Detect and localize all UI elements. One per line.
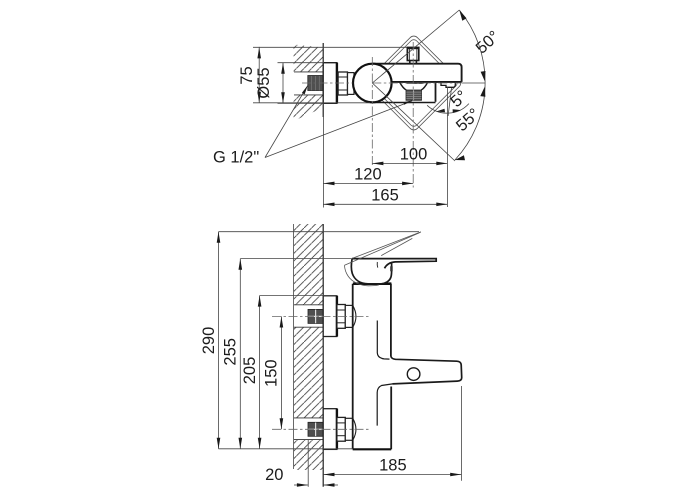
leader to wall thread xyxy=(265,85,308,158)
dimension 185 xyxy=(323,386,461,481)
spout hole xyxy=(407,368,420,381)
lever tip tab (top view) xyxy=(441,82,455,87)
wall left edge (side view) xyxy=(293,224,295,469)
dimension 75 xyxy=(253,47,407,103)
hex adapter (top view) xyxy=(338,72,347,95)
svg-text:290: 290 xyxy=(200,327,218,355)
dimension 120 xyxy=(323,182,413,184)
svg-text:120: 120 xyxy=(354,166,382,184)
escutcheon flange (top view) xyxy=(323,63,337,104)
dimension 100 xyxy=(372,162,447,164)
handle dome circle (top view) xyxy=(353,64,392,103)
svg-text:75: 75 xyxy=(238,66,256,84)
lower eccentric threaded block xyxy=(308,422,323,436)
svg-text:255: 255 xyxy=(221,338,239,366)
rotation envelope outer diamond (top view) xyxy=(365,34,463,132)
5 degree arrows xyxy=(436,109,461,113)
floor extension line xyxy=(219,448,354,450)
dimension 290 xyxy=(219,232,420,449)
svg-text:205: 205 xyxy=(241,357,259,385)
body top joint thick line xyxy=(353,282,392,285)
dimension diameter 55 xyxy=(278,63,325,104)
neck cylinder (top view) xyxy=(348,73,355,95)
dimension 165 xyxy=(323,203,447,205)
body bottom / spout top edge (top view) xyxy=(391,81,462,83)
wall hatch (top view) xyxy=(294,45,324,122)
svg-text:50°: 50° xyxy=(473,27,504,57)
5 degree vertical reference line xyxy=(446,87,448,207)
upper connector cap xyxy=(345,305,356,327)
50 degree ray xyxy=(372,10,459,83)
extension: wall surface down xyxy=(322,112,324,208)
arc arrowheads xyxy=(455,10,486,160)
lower centerline xyxy=(272,428,369,430)
rotated lever thin outline xyxy=(345,232,421,286)
svg-text:165: 165 xyxy=(371,186,399,204)
upper eccentric threaded block xyxy=(308,309,323,323)
funnel opening (top view) xyxy=(400,83,428,90)
svg-text:185: 185 xyxy=(379,456,407,474)
55 degree ray xyxy=(372,83,455,161)
lower connector cap xyxy=(345,418,356,440)
svg-text:100: 100 xyxy=(400,146,428,164)
5 degree tilted line xyxy=(448,88,451,116)
svg-text:150: 150 xyxy=(262,359,280,387)
dimension 255 xyxy=(240,259,352,449)
handle lever blade (side view) xyxy=(352,259,436,269)
big angle arc xyxy=(455,10,485,160)
dimension 150 xyxy=(280,316,282,429)
lower hex nut xyxy=(337,417,345,441)
spout block (top view) xyxy=(370,82,436,103)
diverter knob (top view) xyxy=(407,47,419,63)
handle cap (side view) xyxy=(351,259,391,284)
rotation envelope inner diamond (top view) xyxy=(369,38,459,128)
centerline vertical through handle (top view) xyxy=(371,57,373,167)
wall recess lines (side view) xyxy=(294,305,323,440)
wall surface line (top view) xyxy=(322,43,324,117)
svg-text:Ø55: Ø55 xyxy=(255,67,273,98)
aerator thread (top view) xyxy=(406,90,422,100)
centerline horizontal (top view) xyxy=(302,82,353,84)
upper flange escutcheon xyxy=(323,296,337,337)
svg-text:20: 20 xyxy=(265,466,283,484)
centerline vertical through diverter (top view) xyxy=(412,42,414,188)
indicator nub on handle xyxy=(390,266,393,271)
handle crease xyxy=(376,262,379,268)
wall hatch (side view) xyxy=(294,224,324,470)
leader to aerator thread xyxy=(265,100,413,157)
upper hex nut xyxy=(337,305,345,329)
horizontal ray to arc xyxy=(462,82,486,84)
svg-text:G 1/2": G 1/2" xyxy=(213,149,259,167)
body (top view) xyxy=(372,64,461,82)
upper centerline xyxy=(272,315,369,317)
dimension 20 xyxy=(294,440,338,487)
lower flange escutcheon xyxy=(323,409,337,450)
dimension 205 xyxy=(260,296,337,449)
spout (side view) xyxy=(377,321,462,426)
threaded tail piece in wall (top view) xyxy=(308,76,323,91)
wall recess lines (top view) xyxy=(294,71,323,73)
faucet body (side view) xyxy=(353,284,392,450)
5 degree arc xyxy=(427,104,469,114)
wall surface line (side view) xyxy=(322,224,324,487)
body bottom thick line xyxy=(353,448,392,450)
